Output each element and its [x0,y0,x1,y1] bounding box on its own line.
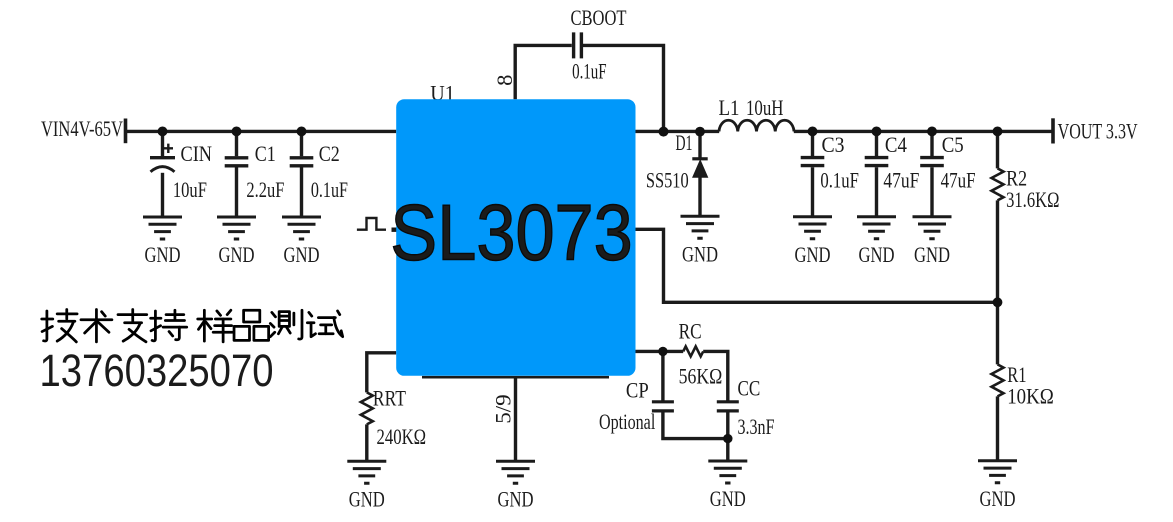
svg-text:13760325070: 13760325070 [40,345,274,396]
svg-text:CBOOT: CBOOT [571,5,627,30]
svg-text:10uF: 10uF [173,177,207,202]
svg-text:C3: C3 [822,132,845,157]
svg-text:RC: RC [679,319,702,344]
svg-text:VOUT 3.3V: VOUT 3.3V [1058,119,1138,144]
svg-text:L1: L1 [719,95,740,120]
svg-text:C1: C1 [255,141,276,166]
svg-text:D1: D1 [676,130,693,155]
svg-text:0.1uF: 0.1uF [572,58,607,83]
svg-text:10uH: 10uH [746,95,783,120]
svg-text:47uF: 47uF [883,168,919,193]
svg-text:C5: C5 [942,132,964,157]
svg-text:SL3073: SL3073 [390,187,633,276]
svg-text:RRT: RRT [373,386,406,411]
svg-text:10KΩ: 10KΩ [1007,383,1054,408]
svg-text:0.1uF: 0.1uF [311,177,348,202]
svg-text:CC: CC [738,375,761,400]
svg-text:Optional: Optional [599,409,655,434]
svg-text:SS510: SS510 [646,168,689,193]
svg-text:C2: C2 [319,141,340,166]
svg-text:5/9: 5/9 [490,394,515,424]
svg-text:CIN: CIN [181,141,213,166]
svg-text:47uF: 47uF [941,168,976,193]
svg-text:56KΩ: 56KΩ [679,363,723,388]
svg-text:VIN4V-65V: VIN4V-65V [41,116,123,141]
svg-text:0.1uF: 0.1uF [820,168,859,193]
svg-text:3.3nF: 3.3nF [738,414,775,439]
svg-text:8: 8 [492,75,517,86]
svg-text:31.6KΩ: 31.6KΩ [1006,187,1059,212]
svg-text:C4: C4 [885,132,907,157]
svg-text:CP: CP [626,378,649,403]
svg-text:2.2uF: 2.2uF [246,177,284,202]
svg-text:240KΩ: 240KΩ [377,424,427,449]
